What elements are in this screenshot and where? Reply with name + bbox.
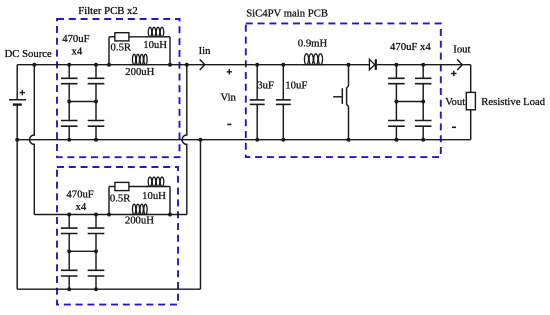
- resistor 0.5R (filter 2): [115, 182, 129, 190]
- svg-text:470uF: 470uF: [62, 33, 89, 45]
- svg-text:Resistive Load: Resistive Load: [481, 96, 545, 108]
- output plus sign: [451, 71, 456, 76]
- wire: negative rail: [17, 139, 471, 141]
- inductor 200uH (filter 1): [132, 54, 135, 64]
- inductor 0.9mH: [304, 54, 308, 65]
- junction dot: battery on negative rail: [15, 138, 19, 142]
- svg-text:Filter PCB x2: Filter PCB x2: [78, 5, 137, 17]
- wire: resistor to 10uH lead (filter 2): [129, 186, 148, 188]
- svg-text:Vout: Vout: [445, 96, 465, 108]
- inductor 10uH (filter 1): [148, 27, 152, 37]
- wire: damping branch right vertical (filter 2): [169, 187, 171, 215]
- svg-text:0.9mH: 0.9mH: [298, 38, 328, 50]
- inductor 10uH (filter 2): [148, 177, 152, 187]
- capacitor bank 470uF x4 - column 1 (filter 1): [68, 65, 70, 79]
- svg-text:x4: x4: [76, 201, 87, 213]
- junction dot: diode cathode node: [394, 63, 398, 67]
- capacitor 3uF: [256, 65, 258, 100]
- svg-text:10uH: 10uH: [143, 39, 167, 51]
- wire: damping branch left vertical (filter 1): [108, 37, 110, 65]
- diode D1: [369, 59, 374, 70]
- svg-text:3uF: 3uF: [257, 79, 274, 91]
- wire: filter 2 wire between nodes: [69, 214, 187, 216]
- wire: top rail (diode cathode to output corner): [377, 64, 471, 66]
- current arrow Iout: [457, 59, 462, 70]
- wire: resistor to 10uH lead (filter 1): [129, 36, 148, 38]
- junction dots: cap columns on rails (filter 2): [67, 213, 71, 217]
- junction dots: output cap columns: [421, 63, 425, 67]
- svg-text:200uH: 200uH: [125, 66, 154, 78]
- junction dot: damping branch right node (filter 1): [168, 63, 172, 67]
- Filter PCB box 1 (top, dashed blue): [57, 19, 180, 157]
- Vin minus sign: [227, 123, 231, 125]
- svg-text:200uH: 200uH: [125, 214, 154, 226]
- wire: damping branch left vertical (filter 2): [108, 187, 110, 215]
- junction dot: damping branch left node (filter 2): [107, 213, 111, 217]
- junction dot: feed vertical on top rail: [32, 63, 36, 67]
- junction dots: 3uF node: [255, 63, 259, 67]
- wire: lower return bus of filter 2: [17, 288, 200, 290]
- svg-text:0.5R: 0.5R: [110, 193, 131, 205]
- wire: mid link between cap columns (filter 1): [69, 101, 96, 103]
- svg-text:SiC4PV main PCB: SiC4PV main PCB: [246, 7, 328, 19]
- wire: load top lead: [470, 65, 472, 93]
- transistor Q1 (SiC MOSFET): [347, 65, 349, 140]
- junction dot: damping branch left node (filter 1): [107, 63, 111, 67]
- junction dot: damping branch right node (filter 2): [168, 213, 172, 217]
- Vin plus sign: [227, 69, 232, 74]
- junction dots: cap columns on rails (filter 1): [67, 63, 71, 67]
- svg-text:0.5R: 0.5R: [111, 41, 132, 53]
- svg-text:470uF x4: 470uF x4: [390, 41, 431, 53]
- svg-text:Vin: Vin: [221, 92, 237, 104]
- resistor 0.5R (filter 1): [115, 33, 129, 41]
- wire: 10uH to right vertical (filter 1): [164, 36, 170, 38]
- wire: filter 2 return vertical: [200, 140, 202, 290]
- junction dot: filter 2 output on top rail: [185, 63, 189, 67]
- capacitor bank 470uF x4 - column 2 (filter 1): [95, 65, 97, 79]
- junction dots: MOSFET drain and source nodes: [347, 63, 351, 67]
- wire: mid link between output cap columns: [396, 101, 423, 103]
- svg-text:470uF: 470uF: [66, 188, 93, 200]
- capacitor bank 470uF x4 output - column 2: [422, 65, 424, 79]
- svg-text:Iout: Iout: [453, 43, 470, 55]
- wire: battery negative lead down to bottom bus: [16, 105, 18, 290]
- wire: battery positive lead up to top rail: [16, 65, 18, 100]
- wire: feed vertical to filter 2 input (hops negative rail): [30, 65, 35, 215]
- wire: filter 2 output vertical (hops negative rail): [182, 65, 187, 215]
- current arrow Iin: [200, 59, 205, 70]
- wire: load bottom lead: [470, 110, 472, 140]
- output minus sign: [452, 126, 456, 128]
- capacitor bank 470uF x4 - column 1 (filter 2): [68, 215, 70, 229]
- svg-text:10uH: 10uH: [142, 190, 166, 202]
- svg-text:x4: x4: [72, 46, 83, 58]
- wire: top rail (battery to diode anode): [17, 64, 369, 66]
- svg-text:Iin: Iin: [199, 45, 212, 57]
- svg-text:10uF: 10uF: [285, 79, 307, 91]
- capacitor bank 470uF x4 - column 2 (filter 2): [95, 215, 97, 229]
- capacitor 10uF: [282, 65, 284, 100]
- SiC4PV main PCB box (dashed blue): [246, 23, 441, 157]
- wire: branch lead to resistor (filter 2): [109, 186, 115, 188]
- Filter PCB box 2 (bottom, dashed blue): [57, 167, 178, 305]
- wire: 10uH to right vertical (filter 2): [164, 186, 170, 188]
- svg-text:DC Source: DC Source: [5, 48, 52, 60]
- wire: filter 2 input segment: [34, 214, 69, 216]
- junction dots: 10uF node: [281, 63, 285, 67]
- wire: damping branch right vertical (filter 1): [169, 37, 171, 65]
- wire: branch lead to resistor (filter 1): [109, 36, 115, 38]
- wire: mid link between cap columns (filter 2): [69, 250, 96, 252]
- battery DC source: [9, 99, 26, 101]
- capacitor bank 470uF x4 output - column 1: [395, 65, 397, 79]
- inductor 200uH (filter 2): [132, 204, 135, 214]
- junction dot: return vertical on negative rail: [199, 138, 203, 142]
- resistor: Resistive Load: [466, 92, 475, 109]
